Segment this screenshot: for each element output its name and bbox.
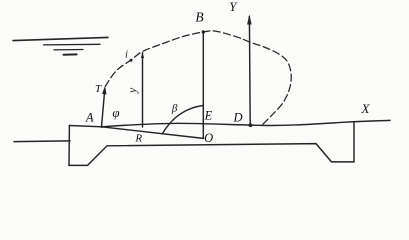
- svg-text:i: i: [125, 49, 128, 60]
- svg-text:R: R: [134, 132, 142, 144]
- svg-text:y: y: [127, 87, 139, 94]
- svg-text:β: β: [171, 103, 178, 115]
- svg-text:D: D: [232, 111, 242, 125]
- svg-text:φ: φ: [112, 105, 119, 120]
- svg-text:E: E: [204, 109, 213, 123]
- svg-text:X: X: [361, 101, 371, 116]
- svg-text:O: O: [204, 131, 213, 145]
- svg-text:T: T: [95, 83, 102, 95]
- svg-text:B: B: [195, 10, 203, 25]
- svg-text:A: A: [85, 110, 94, 124]
